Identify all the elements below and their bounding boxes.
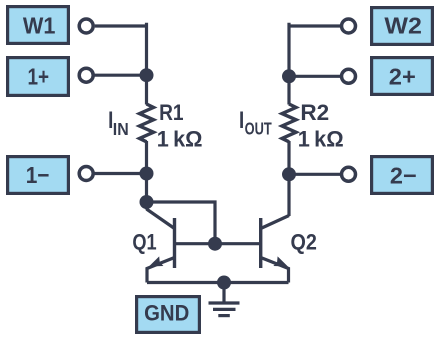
svg-text:Q1: Q1 [132, 230, 156, 255]
terminal box 1+ [8, 58, 69, 96]
junction node 2+ / W2 [282, 69, 296, 83]
wire W2 terminal to right vertical rail [289, 24, 340, 27]
svg-text:W2: W2 [384, 12, 422, 38]
terminal box GND [137, 297, 200, 333]
terminal box 1- [8, 157, 69, 194]
junction node base rail [208, 237, 222, 251]
wire 2- terminal to right vertical rail [289, 173, 340, 176]
wire 2+ terminal to right vertical rail [289, 75, 340, 78]
svg-text:1 kΩ: 1 kΩ [157, 126, 203, 151]
svg-text:W1: W1 [23, 12, 56, 38]
svg-text:IN: IN [113, 119, 129, 139]
terminal box 2- [372, 157, 433, 194]
resistor R2 zigzag [282, 104, 296, 142]
svg-text:1+: 1+ [28, 63, 50, 89]
wire emitter rail (bottom) [147, 281, 289, 284]
terminal pin 1- [79, 167, 93, 181]
terminal pin 2- [342, 167, 356, 181]
svg-text:Q2: Q2 [291, 230, 317, 255]
wire R2 bottom to 2- node and down to Q2 collector [287, 141, 290, 216]
wire right vertical rail top (W2 corner down to R2 top) [287, 24, 289, 104]
junction node A (Q1 collector tie) [140, 195, 154, 209]
svg-text:1−: 1− [26, 162, 50, 188]
wire left vertical rail top (W1 corner down to R1 top) [147, 24, 149, 104]
terminal box 2+ [372, 58, 433, 95]
svg-text:I: I [239, 107, 244, 134]
svg-text:1 kΩ: 1 kΩ [298, 126, 344, 151]
terminal pin W1 [79, 19, 93, 33]
svg-text:2+: 2+ [389, 63, 416, 89]
terminal box W2 [372, 8, 433, 45]
ground [209, 283, 240, 316]
svg-text:GND: GND [144, 300, 189, 325]
junction node 2- / R2 [282, 167, 296, 181]
terminal pin 1+ [79, 68, 93, 82]
transistor Q2 [261, 216, 289, 283]
terminal pin 2+ [342, 69, 356, 83]
svg-text:R1: R1 [159, 100, 184, 125]
junction node 1+ / W1 [140, 68, 154, 82]
wire 1- terminal to left vertical rail [95, 172, 147, 175]
wire W1 terminal to left vertical rail [95, 24, 147, 27]
svg-text:OUT: OUT [245, 119, 272, 139]
wire base rail Q1 base to Q2 base [175, 242, 261, 245]
svg-text:R2: R2 [300, 100, 329, 125]
wire 1+ terminal to left vertical rail [95, 74, 147, 77]
wire R1 bottom to 1- node and down to collector node [145, 141, 148, 210]
transistor Q1 [147, 209, 175, 283]
wire collector tie from node A to base rail [147, 202, 216, 244]
resistor R1 zigzag [140, 104, 154, 142]
terminal pin W2 [342, 19, 356, 33]
junction node 1- / R1 [140, 167, 154, 181]
junction node ground rail [217, 276, 231, 290]
terminal box W1 [8, 7, 69, 44]
svg-text:2−: 2− [390, 163, 417, 189]
